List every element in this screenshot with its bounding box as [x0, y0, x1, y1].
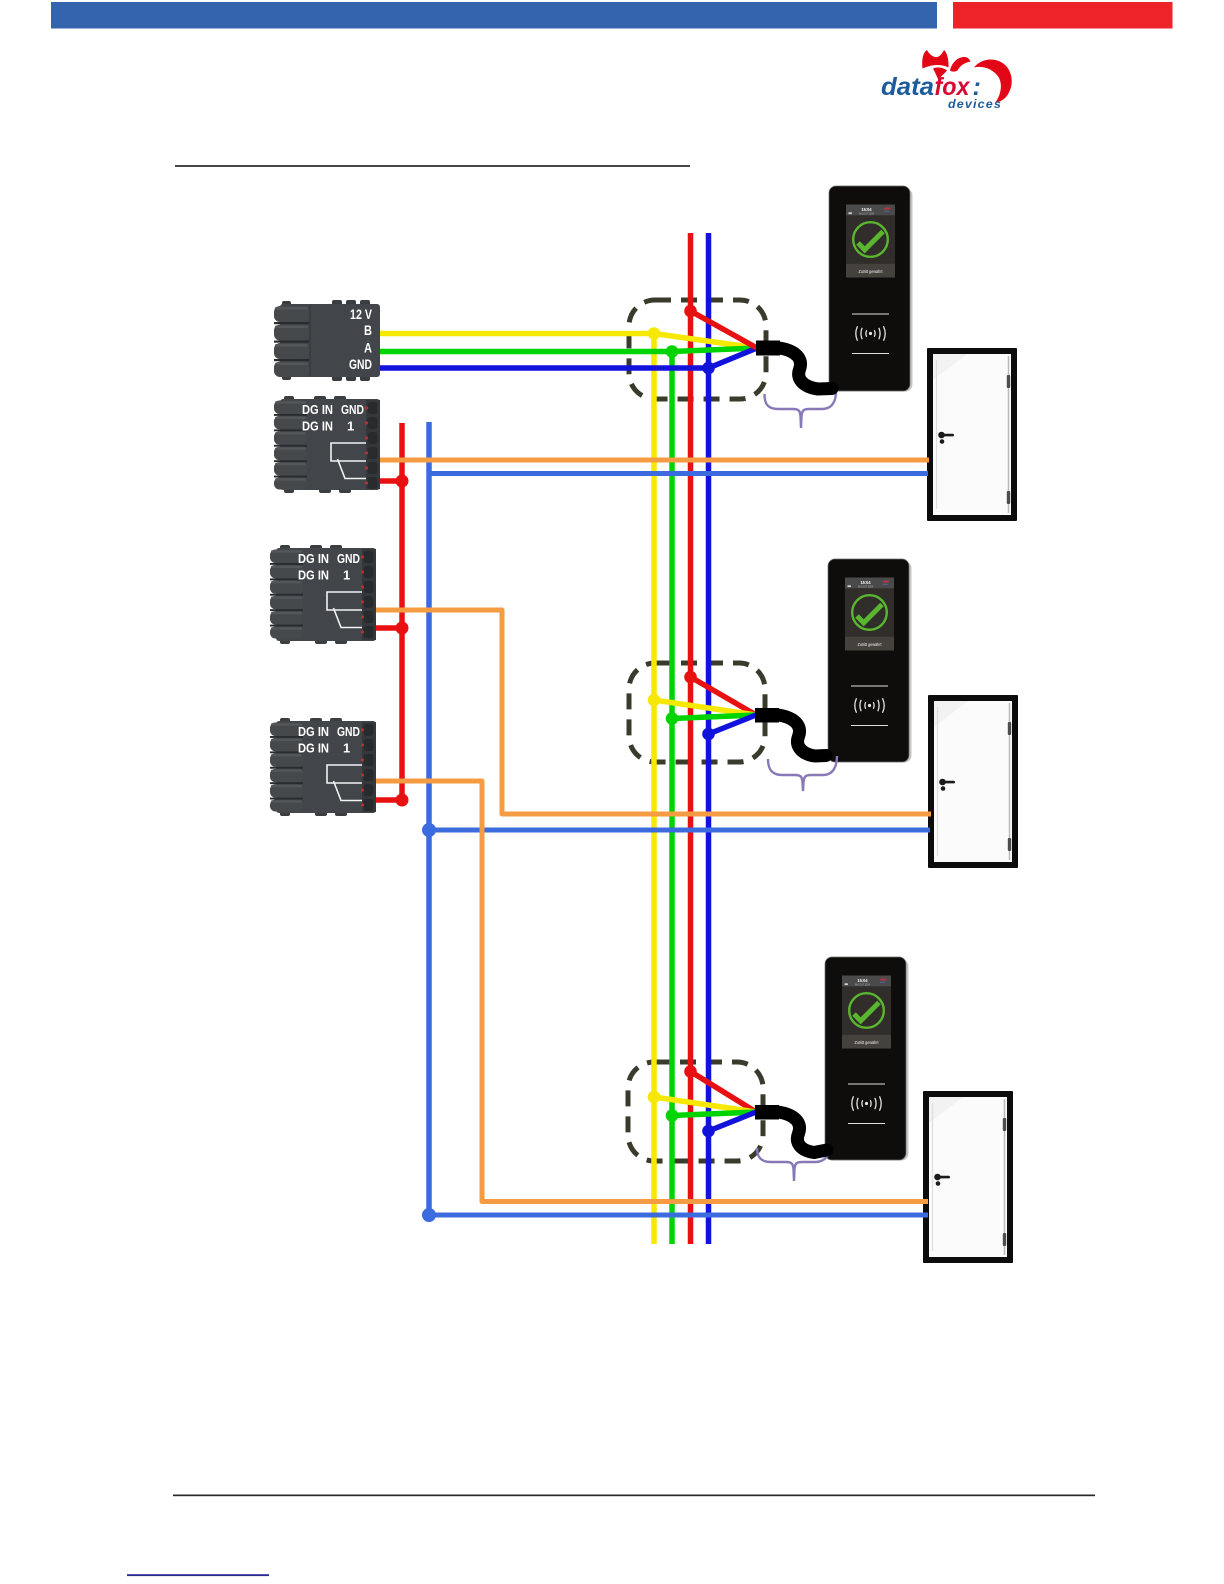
- junction red box3: [684, 1065, 697, 1078]
- relay contact symbol K3: [327, 765, 362, 801]
- door 3: [923, 1091, 1013, 1263]
- wire red stub X2: [380, 478, 402, 484]
- title rule: [175, 165, 690, 167]
- relay contact symbol K2: [327, 592, 362, 628]
- wire red stub X3: [376, 625, 402, 631]
- wire red DG bus vertical: [399, 423, 405, 800]
- wire blue tap box2: [709, 715, 757, 734]
- wire bus yellow vertical: [651, 334, 657, 1245]
- svg-text:Mi 10.07.2024: Mi 10.07.2024: [859, 211, 874, 215]
- wire green tap box3: [672, 1112, 756, 1116]
- wire green tap box2: [672, 715, 756, 719]
- junction red X2: [396, 475, 409, 488]
- wire 12V red tap box1: [691, 311, 758, 348]
- cable 3: [755, 1105, 779, 1120]
- wire orange door1: [380, 458, 929, 463]
- svg-text:Mi 10.07.2024: Mi 10.07.2024: [858, 584, 873, 588]
- cable 1: [756, 341, 780, 356]
- header bar red: [953, 2, 1173, 29]
- svg-text:1: 1: [343, 741, 350, 756]
- junction green box3: [666, 1109, 679, 1122]
- svg-text:DG IN: DG IN: [302, 402, 333, 417]
- svg-text:GND: GND: [341, 402, 364, 417]
- footer link line: [127, 1574, 269, 1576]
- junction blue box1: [702, 362, 715, 375]
- svg-text:B: B: [364, 323, 372, 338]
- svg-text:DG IN: DG IN: [302, 419, 333, 434]
- svg-text:12 V: 12 V: [350, 307, 372, 322]
- junction red box2: [684, 671, 697, 684]
- svg-text:15:04: 15:04: [858, 978, 869, 983]
- junction box 2 (dashed): [629, 663, 765, 762]
- datafox logo: [881, 50, 1012, 111]
- svg-text:DG IN: DG IN: [298, 741, 329, 756]
- door 2: [928, 695, 1018, 868]
- junction yellow box1: [648, 327, 661, 340]
- junction blue door3: [422, 1208, 436, 1222]
- svg-text:Mi 10.07.2024: Mi 10.07.2024: [855, 982, 870, 986]
- terminal block X1 (12V/RS485): [274, 300, 380, 381]
- wire blue GND bus vertical: [426, 422, 432, 1215]
- junction green box2: [666, 712, 679, 725]
- brace 2: [768, 756, 837, 791]
- junction red X4: [396, 794, 409, 807]
- svg-text:data: data: [881, 73, 934, 101]
- junction green box1: [666, 345, 679, 358]
- header bar blue: [51, 2, 937, 29]
- svg-text:DG IN: DG IN: [298, 568, 329, 583]
- wire bus blue vertical: [706, 233, 712, 1244]
- wire yellow tap box2: [654, 700, 756, 715]
- terminal block X2 (DG IN door 1): [274, 396, 380, 493]
- svg-text:15:04: 15:04: [861, 580, 872, 585]
- footer rule: [173, 1495, 1095, 1497]
- svg-text:GND: GND: [349, 357, 372, 372]
- junction blue box3: [702, 1125, 715, 1138]
- junction yellow box3: [648, 1091, 661, 1104]
- wire bus green vertical: [669, 352, 675, 1245]
- junction blue box2: [702, 728, 715, 741]
- wire bus red vertical: [688, 233, 694, 1244]
- wire red tap box3: [691, 1072, 757, 1113]
- junction yellow box2: [648, 694, 661, 707]
- wire B yellow from X1: [380, 334, 757, 349]
- terminal block X4 (DG IN door 3): [270, 718, 376, 816]
- wire blue door1 horizontal: [429, 471, 928, 476]
- svg-text:15:04: 15:04: [862, 207, 873, 212]
- svg-text:1: 1: [343, 568, 350, 583]
- wire A green from X1: [380, 348, 757, 352]
- door 1: [927, 348, 1017, 521]
- relay contact symbol K1: [331, 443, 366, 479]
- wire blue tap box3: [709, 1112, 757, 1131]
- brace 1: [765, 391, 837, 428]
- junction red box1: [684, 305, 697, 318]
- svg-text:A: A: [364, 341, 372, 356]
- svg-text:Zutritt gewährt: Zutritt gewährt: [855, 1040, 880, 1045]
- access reader device U3: [825, 957, 909, 1161]
- svg-text:devices: devices: [948, 97, 1002, 111]
- junction box 1 (dashed): [629, 300, 766, 399]
- wire yellow tap box3: [654, 1097, 756, 1112]
- wire blue door2 horizontal: [429, 828, 930, 833]
- svg-text:GND: GND: [337, 551, 360, 566]
- junction red X3: [396, 622, 409, 635]
- svg-text:Zutritt gewährt: Zutritt gewährt: [859, 269, 884, 274]
- junction box 3 (dashed): [628, 1062, 763, 1161]
- terminal block X3 (DG IN door 2): [270, 545, 376, 644]
- wire blue door3 horizontal: [429, 1213, 928, 1218]
- svg-text:DG IN: DG IN: [298, 724, 329, 739]
- svg-text:1: 1: [347, 419, 354, 434]
- wire orange door3: [376, 781, 928, 1202]
- wire red tap box2: [691, 677, 757, 715]
- access reader device U2: [828, 559, 912, 763]
- access reader device U1: [829, 186, 913, 392]
- svg-text:DG IN: DG IN: [298, 551, 329, 566]
- cable 2: [755, 708, 779, 723]
- wire GND blue from X1: [380, 348, 757, 368]
- svg-text:Zutritt gewährt: Zutritt gewährt: [858, 642, 883, 647]
- junction blue door2: [422, 823, 436, 837]
- brace 3: [757, 1146, 830, 1181]
- svg-text:GND: GND: [337, 724, 360, 739]
- wire orange door2: [376, 610, 931, 814]
- wire red stub X4: [376, 797, 402, 803]
